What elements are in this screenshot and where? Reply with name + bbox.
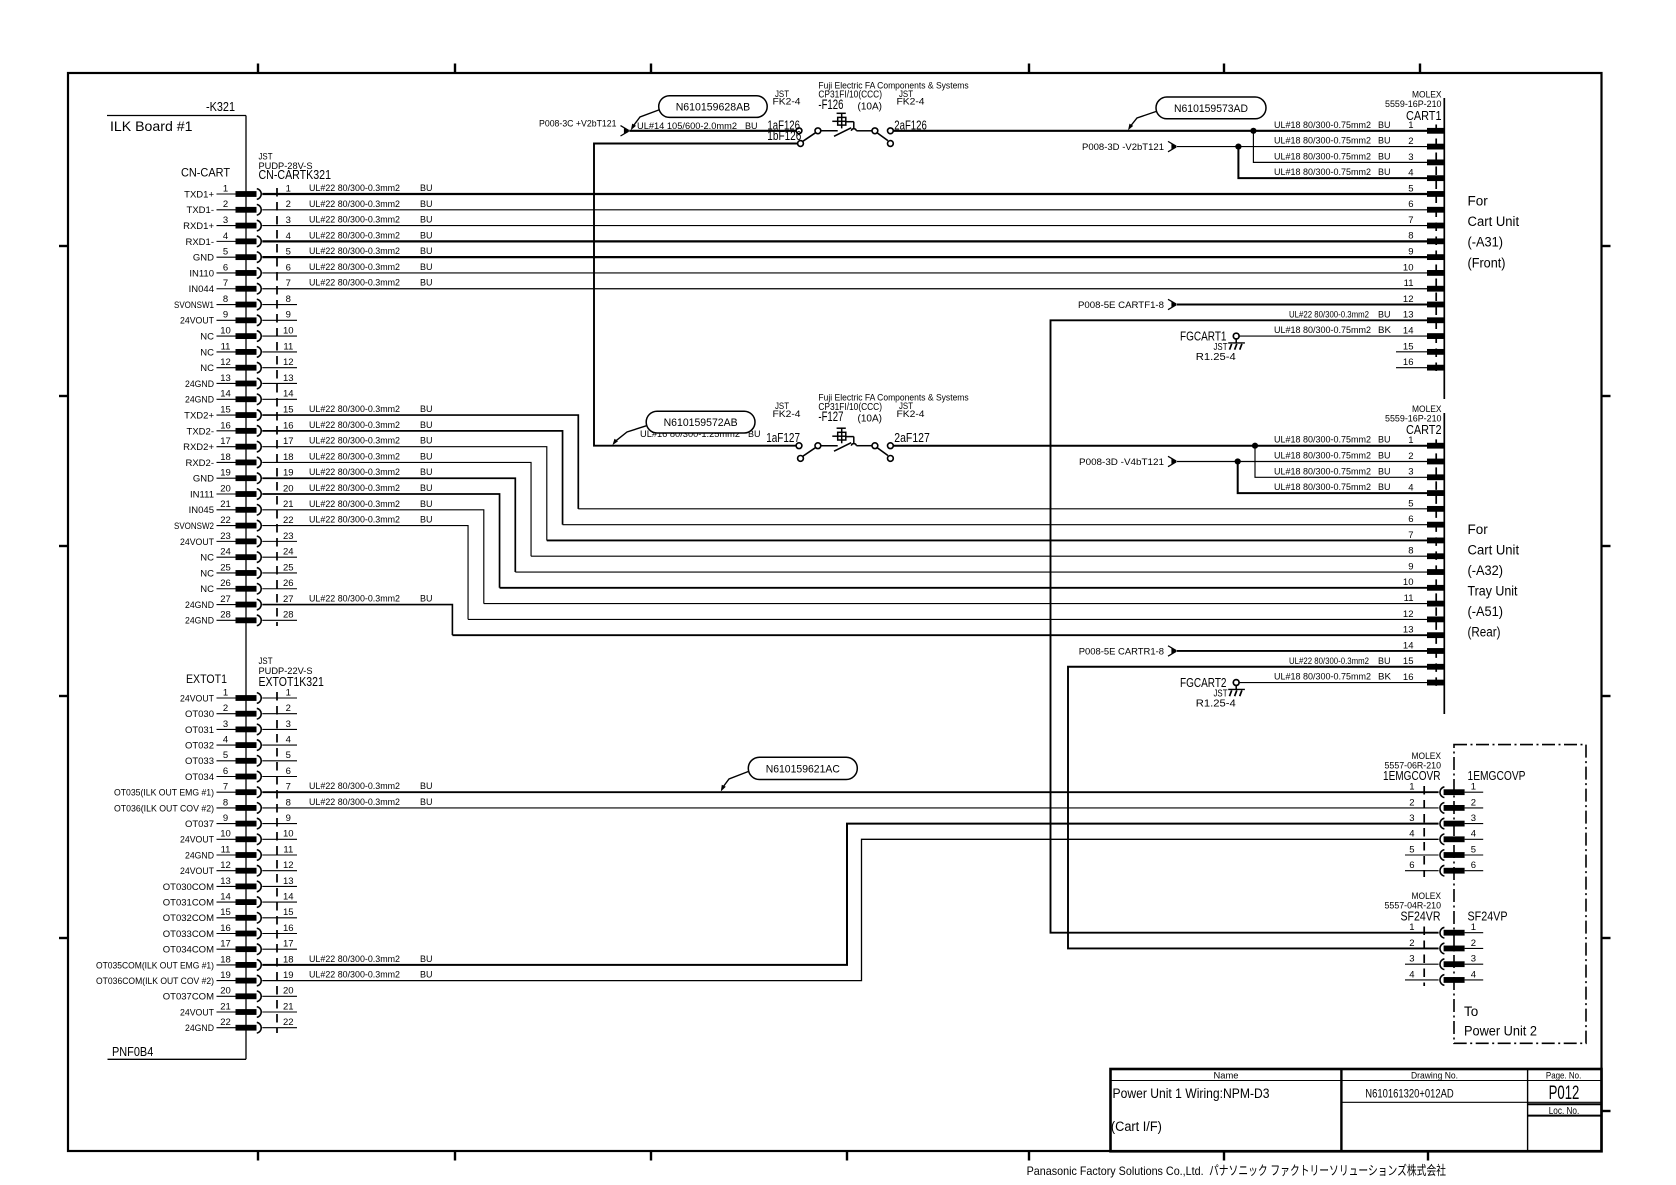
- svg-text:IN045: IN045: [189, 505, 214, 516]
- svg-text:7: 7: [1408, 215, 1413, 226]
- pin 14 CART2: [1403, 640, 1444, 654]
- svg-text:TXD1-: TXD1-: [187, 205, 214, 216]
- svg-text:5: 5: [1408, 498, 1413, 509]
- svg-text:(-A51): (-A51): [1468, 604, 1504, 619]
- pin 23 CN-CART (24VOUT): [180, 531, 297, 548]
- value label UL#22 for CN-CART.7: [309, 278, 433, 289]
- wire CN-CART.2 to CART1.6 (UL#22 80/300-0.3mm2 BU): [262, 209, 1427, 211]
- svg-text:1: 1: [1409, 922, 1414, 933]
- svg-text:RXD2+: RXD2+: [183, 442, 214, 453]
- svg-text:Page. No.: Page. No.: [1546, 1070, 1581, 1081]
- svg-text:6: 6: [286, 262, 291, 273]
- pin 4 CART2: [1408, 482, 1444, 496]
- svg-text:15: 15: [283, 404, 294, 415]
- pin 21 EXTOT1 (24VOUT): [180, 1001, 297, 1018]
- svg-text:1: 1: [1409, 782, 1414, 793]
- value label UL#22 for CN-CART.17: [309, 436, 433, 447]
- svg-text:For: For: [1468, 194, 1489, 209]
- svg-text:6: 6: [223, 766, 228, 777]
- svg-text:15: 15: [220, 404, 231, 415]
- pin 1 CN-CART (TXD1+): [184, 183, 291, 200]
- value labels UL#18 for CART1.1-4: [1274, 120, 1391, 178]
- svg-text:To: To: [1464, 1004, 1478, 1019]
- svg-text:R1.25-4: R1.25-4: [1196, 699, 1236, 710]
- part label N610159573AD: [1128, 97, 1266, 130]
- circuit breaker -F126 (Fuji CP31FI/10, 10A): [796, 113, 893, 146]
- labels for breaker -F127: [766, 393, 969, 445]
- svg-text:20: 20: [220, 483, 231, 494]
- pin 15 EXTOT1 (OT032COM): [163, 907, 297, 924]
- svg-text:BU: BU: [420, 499, 433, 510]
- value label UL#18 BK for CART2.16: [1274, 672, 1392, 683]
- svg-text:7: 7: [286, 782, 291, 793]
- connector CART2 (MOLEX 5559-16P-210): [1385, 404, 1444, 714]
- svg-text:Panasonic Factory Solutions Co: Panasonic Factory Solutions Co.,Ltd.: [1027, 1164, 1204, 1178]
- svg-text:18: 18: [283, 954, 294, 965]
- svg-text:8: 8: [286, 797, 291, 808]
- svg-text:N610159628AB: N610159628AB: [676, 102, 751, 114]
- pin 16 EXTOT1 (OT033COM): [163, 923, 297, 940]
- svg-text:(Cart I/F): (Cart I/F): [1111, 1119, 1162, 1134]
- svg-text:3: 3: [1409, 813, 1414, 824]
- svg-text:24GND: 24GND: [185, 1023, 214, 1034]
- svg-text:UL#18 80/300-0.75mm2: UL#18 80/300-0.75mm2: [1274, 466, 1371, 477]
- connector EXTOT1 mating line: [276, 692, 278, 1033]
- svg-text:2: 2: [1471, 938, 1476, 949]
- svg-text:24GND: 24GND: [185, 379, 214, 390]
- svg-text:OT034COM: OT034COM: [163, 945, 214, 956]
- pin 1 CART2: [1408, 435, 1444, 448]
- svg-text:NC: NC: [200, 332, 214, 343]
- svg-text:9: 9: [286, 310, 291, 321]
- pin 13 EXTOT1 (OT030COM): [163, 876, 297, 893]
- svg-text:RXD1+: RXD1+: [183, 221, 214, 232]
- value label UL#22 for CN-CART.2: [309, 199, 433, 210]
- svg-text:BU: BU: [420, 515, 433, 526]
- pin 2 CN-CART (TXD1-): [187, 199, 291, 216]
- wire 2aF127 to CART2.1 (UL#18 80/300-0.75mm2 BU): [893, 445, 1427, 447]
- wire CARTR1-8 to CART2.14: [1177, 650, 1427, 652]
- wire branch to CART2.4: [1238, 461, 1427, 493]
- pin 2 CART2: [1408, 451, 1444, 464]
- svg-text:8: 8: [223, 294, 228, 305]
- svg-text:UL#22 80/300-0.3mm2: UL#22 80/300-0.3mm2: [309, 278, 400, 289]
- svg-text:10: 10: [283, 829, 294, 840]
- svg-text:UL#18 80/300-0.75mm2: UL#18 80/300-0.75mm2: [1274, 435, 1371, 446]
- svg-text:-K321: -K321: [206, 100, 235, 114]
- pin 13 CART1: [1403, 310, 1444, 324]
- value label UL#22 for CN-CART.18: [309, 451, 433, 462]
- svg-text:UL#18 80/300-0.75mm2: UL#18 80/300-0.75mm2: [1274, 482, 1371, 493]
- svg-text:UL#22 80/300-0.3mm2: UL#22 80/300-0.3mm2: [309, 515, 400, 526]
- svg-text:3: 3: [286, 719, 291, 730]
- svg-text:(-A32): (-A32): [1468, 563, 1504, 578]
- pin 3 EXTOT1 (OT031): [185, 719, 297, 736]
- value labels UL#18 for CART2.1-4: [1274, 435, 1391, 493]
- pin 1 SF24VR: [1409, 922, 1483, 938]
- svg-text:UL#22 80/300-0.3mm2: UL#22 80/300-0.3mm2: [309, 404, 400, 415]
- wire 2aF126 to CART1.1 (UL#18 80/300-0.75mm2 BU): [893, 130, 1427, 132]
- svg-text:10: 10: [1403, 577, 1414, 588]
- svg-text:8: 8: [1408, 546, 1413, 557]
- pin 25 CN-CART (NC): [200, 562, 297, 579]
- pin 24 CN-CART (NC): [200, 547, 297, 564]
- svg-text:5: 5: [286, 750, 291, 761]
- pin 14 CART1: [1403, 325, 1444, 339]
- svg-text:12: 12: [220, 357, 231, 368]
- svg-text:BU: BU: [420, 797, 433, 808]
- svg-text:24VOUT: 24VOUT: [180, 866, 214, 877]
- svg-text:5: 5: [1408, 183, 1413, 194]
- pin 17 CN-CART (RXD2+): [183, 436, 293, 453]
- svg-text:2: 2: [1409, 938, 1414, 949]
- svg-text:(-A31): (-A31): [1468, 235, 1504, 250]
- svg-text:2: 2: [1471, 797, 1476, 808]
- svg-text:UL#18 80/300-0.75mm2: UL#18 80/300-0.75mm2: [1274, 167, 1371, 178]
- svg-text:21: 21: [220, 499, 231, 510]
- svg-text:6: 6: [1408, 514, 1413, 525]
- pin 6 CN-CART (IN110): [189, 262, 291, 279]
- junction on CART1.1 net: [1250, 128, 1256, 134]
- wire 1bF126 to 1aF127 (UL#16 80/300-1.25mm2 BU): [594, 144, 798, 446]
- svg-text:(10A): (10A): [858, 100, 883, 112]
- note To Power Unit 2: [1464, 1004, 1537, 1039]
- svg-text:BU: BU: [420, 215, 433, 226]
- svg-text:UL#22 80/300-0.3mm2: UL#22 80/300-0.3mm2: [309, 970, 400, 981]
- svg-text:NC: NC: [200, 568, 214, 579]
- svg-text:7: 7: [223, 278, 228, 289]
- svg-text:27: 27: [283, 594, 294, 605]
- svg-text:BU: BU: [745, 121, 758, 132]
- svg-text:P008-3D -V4bT121: P008-3D -V4bT121: [1079, 457, 1164, 468]
- svg-text:Name: Name: [1214, 1070, 1239, 1081]
- svg-text:24VOUT: 24VOUT: [180, 1007, 214, 1018]
- wire CN-CART.21 to CART2.11 (UL#22 80/300-0.3mm2 BU): [262, 510, 1427, 604]
- svg-text:OT031COM: OT031COM: [163, 898, 214, 909]
- svg-text:12: 12: [283, 357, 294, 368]
- svg-text:11: 11: [221, 844, 231, 855]
- pin 18 EXTOT1 (OT035COM(ILK OUT EMG #1)): [96, 954, 294, 971]
- svg-text:24VOUT: 24VOUT: [180, 316, 214, 327]
- pin 22 CN-CART (SVONSW2): [174, 515, 294, 532]
- svg-text:2: 2: [223, 199, 228, 210]
- svg-text:BU: BU: [420, 183, 433, 194]
- svg-text:19: 19: [220, 468, 231, 479]
- svg-text:6: 6: [1409, 860, 1414, 871]
- svg-text:3: 3: [1471, 813, 1476, 824]
- wire EXTOT1.18 to 1EMGCOVR.3 (UL#22 80/300-0.3mm2 BU): [262, 824, 1438, 965]
- value label UL#22 for CN-CART.22: [309, 515, 433, 526]
- svg-text:P008-3C +V2bT121: P008-3C +V2bT121: [539, 119, 617, 130]
- pin 2 SF24VR: [1409, 938, 1483, 954]
- svg-text:5: 5: [1471, 844, 1476, 855]
- pin 2 CART1: [1408, 136, 1444, 150]
- svg-text:17: 17: [220, 436, 231, 447]
- svg-text:UL#22 80/300-0.3mm2: UL#22 80/300-0.3mm2: [309, 215, 400, 226]
- svg-text:(Front): (Front): [1468, 255, 1506, 270]
- svg-text:Drawing No.: Drawing No.: [1411, 1070, 1458, 1081]
- svg-text:12: 12: [1403, 294, 1414, 305]
- svg-text:(Rear): (Rear): [1468, 625, 1501, 640]
- svg-text:13: 13: [283, 876, 294, 887]
- pin 9 EXTOT1 (OT037): [185, 813, 297, 830]
- svg-text:12: 12: [283, 860, 294, 871]
- pin 6 CART1: [1408, 199, 1444, 213]
- svg-text:FK2-4: FK2-4: [773, 409, 801, 420]
- pin 10 CN-CART (NC): [200, 326, 297, 343]
- svg-text:17: 17: [283, 939, 294, 950]
- pin 3 CART1: [1408, 152, 1444, 166]
- svg-text:24: 24: [220, 547, 231, 558]
- svg-text:1: 1: [1471, 922, 1476, 933]
- value label UL#22 for EXTOT1.18: [309, 954, 433, 965]
- svg-text:24GND: 24GND: [185, 395, 214, 406]
- pin 8 CART1: [1408, 231, 1444, 245]
- svg-text:OT036(ILK OUT COV #2): OT036(ILK OUT COV #2): [114, 803, 214, 814]
- svg-text:20: 20: [220, 986, 231, 997]
- connector 1EMGCOVR mating line: [1423, 786, 1425, 877]
- svg-text:UL#22 80/300-0.3mm2: UL#22 80/300-0.3mm2: [309, 230, 400, 241]
- ground terminal FGCART2 (JST R1.25-4): [1180, 675, 1245, 710]
- svg-text:3: 3: [1409, 954, 1414, 965]
- svg-text:FK2-4: FK2-4: [773, 97, 801, 108]
- value label UL#22 for EXTOT1.7: [309, 781, 433, 792]
- pin 4 CN-CART (RXD1-): [185, 231, 290, 248]
- value label UL#22 for CN-CART.20: [309, 483, 433, 494]
- pin 16 CART2: [1403, 672, 1444, 686]
- value label UL#22 for CN-CART.5: [309, 246, 433, 257]
- svg-text:16: 16: [1403, 357, 1414, 368]
- svg-text:OT037COM: OT037COM: [163, 992, 214, 1003]
- svg-text:OT035COM(ILK OUT EMG #1): OT035COM(ILK OUT EMG #1): [96, 960, 214, 971]
- svg-text:BU: BU: [420, 246, 433, 257]
- svg-text:TXD2-: TXD2-: [187, 426, 214, 437]
- title block: [1111, 1069, 1602, 1151]
- svg-text:UL#22 80/300-0.3mm2: UL#22 80/300-0.3mm2: [309, 199, 400, 210]
- svg-text:BU: BU: [1378, 466, 1391, 477]
- svg-text:16: 16: [220, 923, 231, 934]
- svg-text:FK2-4: FK2-4: [897, 409, 925, 420]
- pin 1 EXTOT1 (24VOUT): [180, 687, 297, 704]
- value label UL#22 for EXTOT1.19: [309, 970, 433, 981]
- wire EXTOT1.19 to 1EMGCOVR.4 (UL#22 80/300-0.3mm2 BU): [262, 839, 1438, 980]
- svg-text:5: 5: [223, 247, 228, 258]
- svg-text:11: 11: [1404, 593, 1414, 604]
- svg-text:BU: BU: [420, 970, 433, 981]
- pin 7 EXTOT1 (OT035(ILK OUT EMG #1)): [114, 782, 291, 799]
- svg-text:For: For: [1468, 522, 1489, 537]
- svg-text:28: 28: [220, 610, 231, 621]
- junction on CART2.1 net: [1252, 443, 1258, 449]
- pin 12 EXTOT1 (24VOUT): [180, 860, 297, 877]
- wire EXTOT1.7 to 1EMGCOVR.1 (UL#22 80/300-0.3mm2 BU): [262, 791, 1438, 793]
- svg-text:22: 22: [220, 515, 231, 526]
- svg-text:16: 16: [1403, 672, 1414, 683]
- pin 9 CN-CART (24VOUT): [180, 310, 297, 327]
- pin 16 CN-CART (TXD2-): [187, 420, 294, 437]
- svg-text:3: 3: [1408, 467, 1413, 478]
- svg-text:10: 10: [1403, 262, 1414, 273]
- connector SF24VR (MOLEX 5557-04R-210): [1385, 891, 1442, 924]
- svg-text:3: 3: [286, 215, 291, 226]
- svg-text:14: 14: [220, 389, 231, 400]
- pin 11 CN-CART (NC): [200, 341, 297, 358]
- svg-text:1: 1: [286, 687, 291, 698]
- wire CN-CART.20 to CART2.10 (UL#22 80/300-0.3mm2 BU): [262, 494, 1427, 588]
- pin 28 CN-CART (24GND): [185, 610, 297, 627]
- svg-text:22: 22: [283, 515, 294, 526]
- svg-text:23: 23: [283, 531, 294, 542]
- svg-text:UL#22 80/300-0.3mm2: UL#22 80/300-0.3mm2: [309, 420, 400, 431]
- pin 12 CN-CART (NC): [200, 357, 297, 374]
- svg-text:BU: BU: [1378, 120, 1391, 131]
- pin 14 EXTOT1 (OT031COM): [163, 892, 297, 909]
- svg-text:3: 3: [223, 215, 228, 226]
- pin 7 CART1: [1408, 215, 1444, 229]
- svg-text:9: 9: [223, 813, 228, 824]
- svg-text:4: 4: [1408, 482, 1413, 493]
- svg-text:4: 4: [286, 231, 291, 242]
- svg-text:18: 18: [220, 452, 231, 463]
- svg-text:10: 10: [220, 829, 231, 840]
- svg-text:23: 23: [220, 531, 231, 542]
- svg-text:OT032: OT032: [185, 741, 214, 752]
- svg-text:BU: BU: [420, 262, 433, 273]
- svg-text:6: 6: [223, 262, 228, 273]
- svg-text:11: 11: [283, 341, 293, 352]
- svg-text:UL#22 80/300-0.3mm2: UL#22 80/300-0.3mm2: [309, 483, 400, 494]
- svg-text:18: 18: [283, 452, 294, 463]
- svg-text:BU: BU: [420, 483, 433, 494]
- pin 11 CART1: [1404, 278, 1445, 291]
- svg-text:4: 4: [1471, 829, 1476, 840]
- pin 10 CART1: [1403, 262, 1444, 276]
- pin 26 CN-CART (NC): [200, 578, 297, 595]
- connector CART2 mating line: [1435, 439, 1437, 689]
- svg-text:2: 2: [1408, 136, 1413, 147]
- pin 27 CN-CART (24GND): [185, 594, 294, 611]
- pin 4 CART1: [1408, 168, 1444, 182]
- svg-text:22: 22: [220, 1017, 231, 1028]
- svg-text:-F127: -F127: [818, 409, 843, 424]
- pin 3 CN-CART (RXD1+): [183, 215, 291, 232]
- wire CN-CART.27 to CART2.13 (UL#22 80/300-0.3mm2 BU): [262, 605, 1427, 636]
- svg-text:OT035(ILK OUT EMG #1): OT035(ILK OUT EMG #1): [114, 788, 214, 799]
- value label UL#22 for CN-CART.4: [309, 230, 433, 241]
- junction on CART2.2 net: [1235, 458, 1241, 464]
- svg-text:P012: P012: [1549, 1083, 1580, 1104]
- svg-text:TXD1+: TXD1+: [184, 189, 214, 200]
- value label UL#22 for CN-CART.19: [309, 467, 433, 478]
- value label UL#22 for EXTOT1.8: [309, 797, 433, 808]
- connector CART1 (MOLEX 5559-16P-210): [1385, 89, 1444, 399]
- svg-text:BU: BU: [420, 436, 433, 447]
- svg-text:6: 6: [1408, 199, 1413, 210]
- svg-text:EXTOT1K321: EXTOT1K321: [259, 674, 324, 689]
- pin 11 EXTOT1 (24GND): [185, 844, 297, 861]
- pin 18 CN-CART (RXD2-): [185, 452, 293, 469]
- svg-text:27: 27: [220, 594, 231, 605]
- svg-text:1: 1: [223, 183, 228, 194]
- svg-text:11: 11: [283, 844, 293, 855]
- note For Cart Unit (-A31) (Front): [1468, 194, 1520, 271]
- pin 14 CN-CART (24GND): [185, 389, 297, 406]
- svg-text:13: 13: [1403, 625, 1414, 636]
- pin 3 SF24VR: [1405, 954, 1483, 970]
- svg-text:N610159621AC: N610159621AC: [766, 763, 840, 775]
- wire CN-CART.19 to CART2.9 (UL#22 80/300-0.3mm2 BU): [262, 478, 1427, 572]
- svg-text:UL#18 80/300-0.75mm2: UL#18 80/300-0.75mm2: [1274, 450, 1371, 461]
- svg-text:BK: BK: [1378, 325, 1392, 336]
- part label N610159572AB: [612, 411, 755, 445]
- svg-text:OT031: OT031: [185, 725, 214, 736]
- svg-text:12: 12: [220, 860, 231, 871]
- svg-text:UL#22 80/300-0.3mm2: UL#22 80/300-0.3mm2: [309, 183, 400, 194]
- value label UL#22 for CN-CART.16: [309, 420, 433, 431]
- svg-text:BU: BU: [420, 954, 433, 965]
- svg-text:4: 4: [286, 735, 291, 746]
- wire FGCART2 to CART2.16 (UL#18 80/300-0.75mm2 BK): [1239, 682, 1427, 684]
- pin 8 EXTOT1 (OT036(ILK OUT COV #2)): [114, 797, 291, 814]
- svg-text:UL#22 80/300-0.3mm2: UL#22 80/300-0.3mm2: [309, 246, 400, 257]
- svg-text:SVONSW2: SVONSW2: [174, 521, 214, 532]
- svg-text:BU: BU: [1378, 482, 1391, 493]
- svg-text:N610159572AB: N610159572AB: [664, 417, 738, 429]
- svg-text:9: 9: [1408, 561, 1413, 572]
- pin 16 CART1: [1396, 357, 1444, 371]
- svg-text:UL#22 80/300-0.3mm2: UL#22 80/300-0.3mm2: [1289, 656, 1369, 667]
- svg-text:15: 15: [220, 907, 231, 918]
- svg-text:UL#18 80/300-0.75mm2: UL#18 80/300-0.75mm2: [1274, 120, 1371, 131]
- svg-text:1EMGCOVR: 1EMGCOVR: [1383, 768, 1441, 783]
- svg-text:4: 4: [1471, 969, 1476, 980]
- svg-text:BK: BK: [1378, 672, 1392, 683]
- value label UL#18 BK for CART1.14: [1274, 325, 1392, 336]
- svg-text:RXD1-: RXD1-: [185, 237, 214, 248]
- svg-text:1: 1: [1471, 782, 1476, 793]
- pin 7 CN-CART (IN044): [189, 278, 291, 295]
- svg-text:Power Unit 1 Wiring:NPM-D3: Power Unit 1 Wiring:NPM-D3: [1113, 1086, 1270, 1101]
- pin 12 CART2: [1403, 609, 1444, 623]
- circuit breaker -F127 (Fuji CP31FI/10, 10A): [796, 428, 893, 461]
- pin 4 EXTOT1 (OT032): [185, 735, 297, 752]
- pin 20 EXTOT1 (OT037COM): [163, 986, 297, 1003]
- svg-text:19: 19: [283, 468, 294, 479]
- svg-text:BU: BU: [420, 404, 433, 415]
- svg-text:RXD2-: RXD2-: [185, 458, 214, 469]
- svg-text:8: 8: [1408, 231, 1413, 242]
- svg-text:19: 19: [220, 970, 231, 981]
- wire CN-CART.17 to CART2.7 (UL#22 80/300-0.3mm2 BU): [262, 447, 1427, 541]
- svg-text:OT037: OT037: [185, 819, 214, 830]
- pin 5 EXTOT1 (OT033): [185, 750, 297, 767]
- pin 6 EXTOT1 (OT034): [185, 766, 297, 783]
- ground terminal FGCART1 (JST R1.25-4): [1180, 329, 1245, 364]
- pin 5 CN-CART (GND): [193, 247, 291, 264]
- svg-text:N610161320+012AD: N610161320+012AD: [1365, 1089, 1453, 1101]
- svg-text:BU: BU: [1378, 435, 1391, 446]
- pin 17 EXTOT1 (OT034COM): [163, 939, 297, 956]
- svg-text:BU: BU: [420, 451, 433, 462]
- svg-text:UL#22 80/300-0.3mm2: UL#22 80/300-0.3mm2: [309, 467, 400, 478]
- svg-text:OT033COM: OT033COM: [163, 929, 214, 940]
- value label UL#22 for CN-CART.21: [309, 499, 433, 510]
- svg-text:Loc. No.: Loc. No.: [1549, 1106, 1580, 1117]
- svg-text:EXTOT1: EXTOT1: [186, 672, 227, 686]
- off-page arrow P008-3D -V4bT121: [1079, 456, 1177, 468]
- svg-text:BU: BU: [1378, 309, 1391, 320]
- svg-text:6: 6: [286, 766, 291, 777]
